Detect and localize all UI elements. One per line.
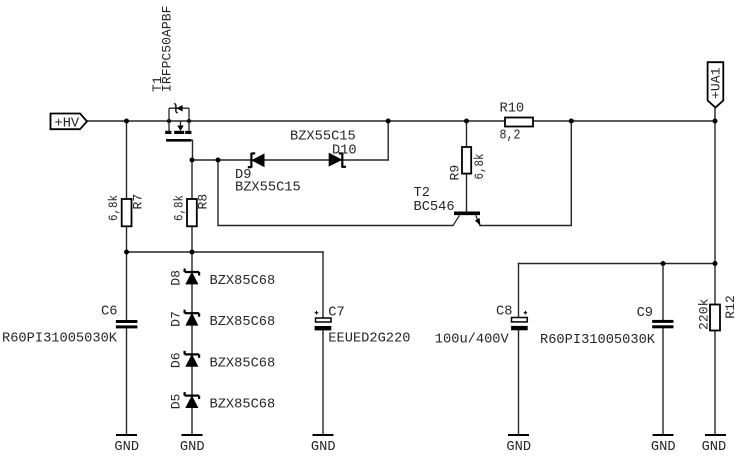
svg-text:R12: R12	[723, 295, 738, 319]
T1 substrate arrow	[180, 121, 182, 126]
svg-text:D5: D5	[168, 393, 183, 409]
ground GND (R12 column)	[702, 435, 727, 455]
svg-text:BC546: BC546	[414, 200, 455, 215]
svg-text:EEUED2G220: EEUED2G220	[328, 331, 410, 346]
svg-text:D10: D10	[332, 143, 357, 158]
diode D5 BZX85C68	[185, 392, 200, 408]
resistor R12	[710, 305, 720, 331]
svg-text:GND: GND	[114, 440, 139, 455]
ground GND (C8 column)	[506, 435, 531, 455]
node junction dot R9 top	[464, 119, 469, 124]
T1 gate bar	[166, 139, 191, 142]
node junction dot D10 to main bus	[386, 119, 391, 124]
node junction dot T1 drain pin	[167, 119, 171, 123]
transistor T1 MOSFET	[165, 103, 191, 140]
svg-text:+UA1: +UA1	[709, 67, 724, 99]
svg-text:R60PI31005030K: R60PI31005030K	[2, 331, 118, 346]
node junction dot gate column	[190, 158, 195, 163]
svg-text:BZX55C15: BZX55C15	[235, 181, 301, 196]
node junction dot T1 source pin	[187, 119, 191, 123]
ground GND (C7 column)	[311, 435, 336, 455]
svg-text:BZX55C15: BZX55C15	[290, 130, 356, 145]
svg-text:220k: 220k	[696, 298, 711, 330]
wire right bus C8-C9-R12	[519, 263, 716, 265]
resistor R9	[462, 147, 471, 174]
svg-text:R60PI31005030K: R60PI31005030K	[540, 333, 656, 348]
svg-text:100u/400V: 100u/400V	[435, 332, 510, 347]
svg-text:IRFPC50APBF: IRFPC50APBF	[159, 6, 174, 92]
svg-text:BZX85C68: BZX85C68	[210, 398, 276, 413]
svg-text:BZX85C68: BZX85C68	[210, 356, 276, 371]
svg-text:6,8k: 6,8k	[171, 195, 186, 221]
transistor T2 BC546	[453, 213, 481, 225]
node junction dot at +HV/R7	[124, 119, 129, 124]
terminal +UA1	[708, 62, 724, 107]
wire R8 / diode-stack column	[191, 160, 193, 435]
svg-text:R10: R10	[500, 101, 525, 116]
diode D10 BZX55C15	[329, 153, 346, 168]
svg-text:BZX85C68: BZX85C68	[210, 274, 276, 289]
resistor R8	[187, 199, 197, 226]
svg-text:R7: R7	[130, 194, 145, 210]
svg-text:BZX85C68: BZX85C68	[210, 315, 276, 330]
ground GND (R7/C6 column)	[114, 435, 139, 455]
capacitor C9	[652, 320, 673, 328]
svg-text:GND: GND	[311, 440, 336, 455]
svg-text:D7: D7	[168, 311, 183, 327]
svg-text:GND: GND	[180, 440, 205, 455]
node junction dot R8 bottom bus	[190, 250, 195, 255]
wire C7 column	[322, 252, 324, 435]
svg-text:6,8k: 6,8k	[106, 195, 121, 221]
svg-text:GND: GND	[506, 440, 531, 455]
node junction dot +UA1	[713, 119, 718, 124]
node junction dot C9 top bus	[661, 261, 666, 266]
svg-text:C9: C9	[637, 306, 653, 321]
svg-text:C7: C7	[328, 305, 344, 320]
node junction dot R7 bottom bus	[124, 250, 129, 255]
svg-text:+HV: +HV	[55, 116, 80, 131]
diode D9 BZX55C15	[248, 153, 265, 168]
wire C9 column	[662, 264, 664, 436]
wire +UA1 / R12 column	[714, 108, 716, 436]
resistor R7	[122, 199, 132, 226]
svg-text:T2: T2	[414, 186, 430, 201]
svg-text:GND: GND	[651, 440, 676, 455]
capacitor C8 (electrolytic)	[511, 311, 528, 330]
node junction dot gate/collector	[216, 158, 221, 163]
wire T2 emitter to main bus	[480, 121, 571, 226]
svg-text:GND: GND	[702, 440, 727, 455]
ground GND (diode column)	[180, 435, 205, 455]
wire left bus R7-R8-C7	[127, 251, 324, 253]
ground GND (C9 column)	[651, 435, 676, 455]
wire T1 gate lead	[191, 140, 193, 160]
svg-text:D8: D8	[168, 270, 183, 286]
wire C8 column	[518, 264, 520, 436]
capacitor C7 (electrolytic)	[315, 311, 332, 331]
wire R9 column (main bus to T2 base)	[466, 121, 468, 212]
T1 body diode	[176, 105, 182, 112]
svg-text:D6: D6	[168, 352, 183, 368]
diode D6 BZX85C68	[185, 351, 200, 367]
svg-text:C6: C6	[101, 304, 117, 319]
node junction dot R12 top bus	[713, 261, 718, 266]
diode D7 BZX85C68	[185, 310, 200, 326]
wire gate row (node to D9/D10)	[192, 121, 388, 160]
svg-text:R9: R9	[447, 165, 462, 181]
svg-text:C8: C8	[496, 304, 512, 319]
T1 channel pads	[165, 131, 171, 134]
svg-text:R8: R8	[196, 194, 211, 210]
node junction dot emitter column top	[569, 119, 574, 124]
diode D8 BZX85C68	[185, 269, 200, 285]
wire gate node to T2 collector	[218, 160, 453, 226]
terminal +HV	[51, 114, 88, 132]
wire main top bus +HV to +UA1	[87, 120, 715, 122]
resistor R10	[505, 118, 533, 127]
svg-text:6,8k: 6,8k	[472, 153, 487, 179]
wire R7/C6 column	[126, 121, 128, 435]
capacitor C6	[116, 320, 137, 328]
T1 body-diode loop	[169, 108, 189, 131]
svg-text:8,2: 8,2	[500, 128, 521, 143]
